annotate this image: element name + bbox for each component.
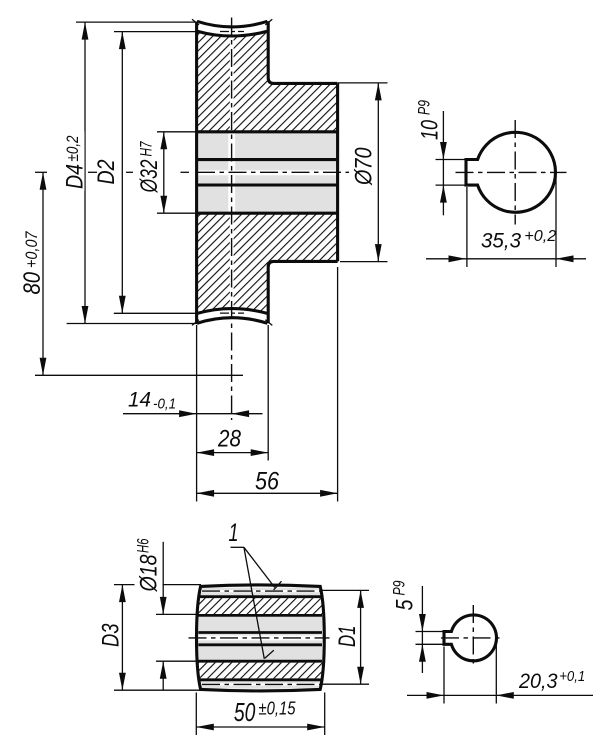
- gear rim upper hatched body: [197, 31, 338, 132]
- leader label 1 underline: [231, 546, 245, 548]
- extension line diam18 top: [156, 613, 199, 615]
- extension line 20,3 right: [495, 641, 497, 704]
- svg-text:-0,1: -0,1: [153, 395, 176, 412]
- bore top edge line: [197, 130, 338, 133]
- dimension line D1: [360, 590, 362, 684]
- svg-text:P9: P9: [416, 100, 434, 115]
- label 10 P9: [416, 100, 444, 140]
- extension line D2 bottom: [114, 312, 197, 314]
- label 5 P9: [391, 581, 419, 611]
- dimension line 20,3: [407, 694, 593, 696]
- pitch circle mark bottom: [220, 312, 244, 314]
- extension line D3 top: [114, 584, 201, 586]
- keyway wall line upper: [198, 631, 322, 634]
- leader line to tooth flank: [244, 547, 264, 659]
- svg-text:Ø70: Ø70: [351, 147, 378, 186]
- bottom tip circle arc: [197, 318, 267, 324]
- svg-text:5: 5: [392, 599, 419, 611]
- svg-text:P9: P9: [391, 581, 409, 596]
- leader line to tooth tip: [244, 547, 275, 587]
- dimension line 35,3: [426, 258, 586, 260]
- leader end tick: [265, 650, 274, 658]
- svg-text:D3: D3: [98, 623, 125, 647]
- svg-text:80: 80: [19, 271, 46, 294]
- dimension line 50: [196, 726, 324, 728]
- extension line D2 top: [114, 31, 197, 33]
- dimension line D2: [121, 32, 123, 314]
- leader tick at tooth tip: [274, 581, 282, 590]
- rim right face upper with step fillet: [268, 21, 337, 83]
- bore circle with keyway: [466, 132, 555, 212]
- extension line D3 bottom: [114, 689, 202, 691]
- extension line hub right face down: [337, 267, 339, 502]
- gear rim lower hatched body: [197, 213, 338, 313]
- svg-text:+0,2: +0,2: [524, 228, 556, 245]
- pitch circle mark top: [220, 31, 244, 33]
- svg-text:14: 14: [128, 389, 151, 412]
- svg-text:±0,2: ±0,2: [64, 136, 82, 162]
- white halo strip vertical centerline: [228, 133, 235, 212]
- extension line 50 right: [324, 693, 326, 736]
- svg-text:56: 56: [255, 468, 279, 496]
- bore bottom line: [199, 660, 323, 663]
- extension line D1 top: [321, 589, 369, 591]
- svg-text:D1: D1: [334, 626, 361, 648]
- pinion axis centerline: [189, 637, 330, 639]
- dimension line 5P9 upper: [421, 586, 423, 673]
- svg-text:D4: D4: [62, 164, 89, 189]
- svg-text:+0,07: +0,07: [23, 231, 41, 268]
- extension line keyway bottom: [436, 184, 467, 186]
- svg-text:1: 1: [229, 519, 239, 547]
- extension line diam70 bottom: [340, 261, 388, 263]
- pitch centerline bottom: [202, 683, 320, 685]
- tooth corner tick top-right: [265, 19, 272, 25]
- pitch centerline top: [202, 590, 320, 592]
- svg-text:Ø32: Ø32: [136, 160, 163, 194]
- extension line bore bottom: [157, 212, 197, 214]
- extension line 35,3 left: [466, 187, 468, 267]
- top tip circle arc: [197, 21, 267, 27]
- vertical centerline: [514, 120, 516, 225]
- root line top: [200, 595, 321, 598]
- pinion hatched band lower: [198, 663, 322, 679]
- horizontal centerline: [441, 637, 500, 639]
- horizontal centerline: [456, 171, 567, 173]
- dimension line diam18: [162, 542, 164, 615]
- dimension line 10P9 lower: [440, 185, 447, 203]
- dimension line 14: [123, 413, 263, 415]
- extension line keyway top: [416, 631, 445, 633]
- extension line D1 bottom: [321, 683, 369, 685]
- pitch band gray top: [199, 588, 322, 596]
- bore band gray lower: [198, 646, 323, 660]
- extension line keyway top: [436, 159, 467, 161]
- pitch band gray bottom: [199, 681, 322, 689]
- svg-text:35,3: 35,3: [481, 230, 521, 253]
- bore gray band lower: [197, 186, 338, 211]
- top root circle arc: [197, 31, 267, 36]
- dimension line D3: [121, 585, 123, 691]
- extension line keyway bottom: [416, 643, 445, 645]
- dimension line 56: [197, 492, 338, 494]
- dimension line 28: [197, 452, 269, 454]
- svg-text:H6: H6: [135, 538, 153, 553]
- gear left face: [195, 22, 198, 324]
- dimension line 80: [42, 172, 44, 375]
- svg-text:Ø18: Ø18: [136, 554, 163, 592]
- white halo strip on bore axis: [197, 170, 337, 175]
- root line bottom: [200, 678, 321, 681]
- keyway lower wall line: [197, 183, 338, 186]
- tooth corner tick top-left: [192, 19, 199, 25]
- bore top line: [199, 614, 323, 617]
- extension line diam18 bottom: [156, 660, 199, 662]
- keyway upper wall line: [197, 158, 338, 161]
- label D4 +-0,2: [62, 131, 89, 191]
- gear vertical mid-plane centerline: [231, 18, 233, 421]
- centerline halo through lower hatch: [230, 214, 234, 309]
- mating axis reference line: [35, 374, 243, 376]
- bore band gray upper: [198, 617, 323, 631]
- dimension line D4: [84, 22, 86, 323]
- svg-text:D2: D2: [93, 160, 120, 185]
- extension line D4 bottom: [67, 323, 198, 325]
- pinion outline: [197, 585, 325, 691]
- svg-text:20,3: 20,3: [518, 670, 558, 693]
- small bore circle with keyway: [444, 615, 496, 661]
- vertical centerline: [472, 605, 474, 667]
- extension line diam70 top: [338, 82, 388, 84]
- extension line bore top: [157, 131, 197, 133]
- keyway bottom band gray: [198, 634, 323, 644]
- bore bottom edge line: [197, 212, 338, 215]
- label D1: [334, 626, 361, 648]
- extension line 35,3 right: [555, 174, 557, 267]
- extension line left face down: [196, 325, 198, 502]
- gear axis centerline: [197, 171, 349, 173]
- keyway bottom gray band (middle): [197, 161, 338, 184]
- dimension line diam70: [377, 83, 379, 262]
- extension line rim right face down: [267, 325, 269, 461]
- bottom root circle arc: [197, 309, 267, 314]
- hub right face: [336, 83, 339, 261]
- dimension line diam32: [163, 132, 165, 213]
- tooth corner tick bottom-left: [192, 320, 199, 326]
- rim right face lower with step fillet: [268, 261, 337, 323]
- label diam 32 H7: [136, 137, 163, 195]
- dimension line 5P9 lower: [419, 644, 426, 662]
- tooth corner tick bottom-right: [265, 320, 272, 326]
- svg-text:28: 28: [217, 425, 241, 452]
- extension line 50 left: [195, 693, 197, 736]
- svg-text:H7: H7: [138, 141, 156, 157]
- centerline halo through upper hatch: [230, 37, 234, 132]
- label 80 +0,07: [19, 231, 46, 295]
- label diam 70: [351, 147, 378, 186]
- svg-text:50: 50: [234, 697, 256, 727]
- svg-text:±0,15: ±0,15: [259, 699, 297, 719]
- bore gray band upper: [197, 133, 338, 158]
- label D2: [93, 158, 120, 187]
- svg-text:10: 10: [417, 120, 444, 140]
- gear axis centerline left extension segments: [35, 171, 47, 173]
- dimension line 10P9 upper: [442, 111, 444, 215]
- keyway wall line lower: [198, 643, 322, 646]
- label D3: [98, 623, 125, 647]
- extension line D4 top: [76, 21, 198, 23]
- label diam 18 H6: [135, 534, 163, 594]
- svg-text:+0,1: +0,1: [559, 669, 585, 685]
- pinion hatched band upper: [198, 598, 322, 614]
- extension line 20,3 left: [443, 647, 445, 704]
